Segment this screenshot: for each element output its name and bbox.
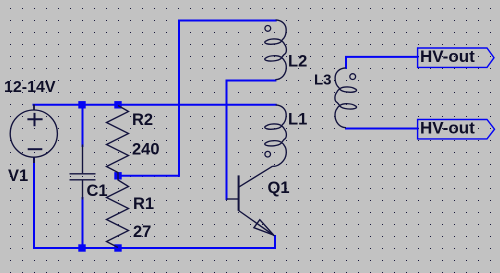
svg-text:L3: L3 xyxy=(314,72,332,89)
inductor L2 coil xyxy=(265,20,287,80)
L2 phase dot xyxy=(265,26,271,32)
resistor R1 zigzag xyxy=(107,176,129,248)
svg-text:HV-out: HV-out xyxy=(420,47,475,66)
capacitor C1 top plate xyxy=(70,173,96,175)
resistor R2 zigzag xyxy=(107,106,129,177)
L1 phase dot xyxy=(265,151,271,157)
svg-text:12-14V: 12-14V xyxy=(4,79,56,96)
C1 bottom stem xyxy=(82,180,84,199)
C1 top stem xyxy=(82,145,84,174)
wire base branch vertical xyxy=(226,81,228,200)
wire L2 bottom horizontal xyxy=(227,80,276,82)
svg-text:HV-out: HV-out xyxy=(420,119,475,138)
wire emitter to ground rail xyxy=(274,236,276,248)
svg-text:R1: R1 xyxy=(133,195,154,213)
flag HV-out bottom xyxy=(418,120,495,139)
wire L3 bottom lead xyxy=(346,128,418,130)
V1 top lead xyxy=(33,105,35,111)
Q1 collector diagonal xyxy=(239,166,273,187)
svg-text:R2: R2 xyxy=(132,111,153,129)
capacitor C1 bottom plate xyxy=(70,179,96,181)
junction node at C1 bottom xyxy=(78,244,85,251)
svg-text:L1: L1 xyxy=(288,111,307,129)
Q1 emitter arrowhead xyxy=(254,220,274,235)
wire feedback top to L2 xyxy=(179,20,276,22)
voltage source V1 circle xyxy=(10,110,57,157)
svg-text:C1: C1 xyxy=(87,182,108,200)
junction node at R1 bottom xyxy=(114,244,121,251)
junction node at C1 top xyxy=(78,101,85,108)
junction node at R2/R1 divider xyxy=(114,172,121,179)
svg-text:27: 27 xyxy=(133,223,151,241)
wire feedback vertical riser xyxy=(178,21,180,176)
svg-text:V1: V1 xyxy=(8,167,28,185)
V1 bottom lead xyxy=(33,157,35,163)
V1 minus sign xyxy=(28,148,43,150)
inductor L3 coil xyxy=(335,68,357,128)
junction node at R2 top xyxy=(114,101,121,108)
wire C1 branch bottom xyxy=(82,198,84,248)
Q1 base lead xyxy=(227,198,239,200)
Q1 emitter diagonal xyxy=(239,211,275,236)
V1 plus sign xyxy=(27,113,42,126)
wire top rail V1 to L1 xyxy=(34,104,276,106)
L3 phase dot xyxy=(350,74,356,80)
wire V1 bottom to ground rail xyxy=(33,158,35,248)
flag HV-out top xyxy=(418,48,494,67)
svg-text:Q1: Q1 xyxy=(268,179,290,197)
wire L3 top lead xyxy=(346,57,418,68)
svg-text:240: 240 xyxy=(132,141,160,159)
wire bottom ground rail xyxy=(34,247,275,249)
transistor Q1 base bar xyxy=(238,175,240,210)
svg-text:L2: L2 xyxy=(288,53,307,71)
wire feedback horizontal from R divider xyxy=(118,175,179,177)
wire C1 branch top xyxy=(82,105,84,146)
inductor L1 coil xyxy=(265,105,287,166)
